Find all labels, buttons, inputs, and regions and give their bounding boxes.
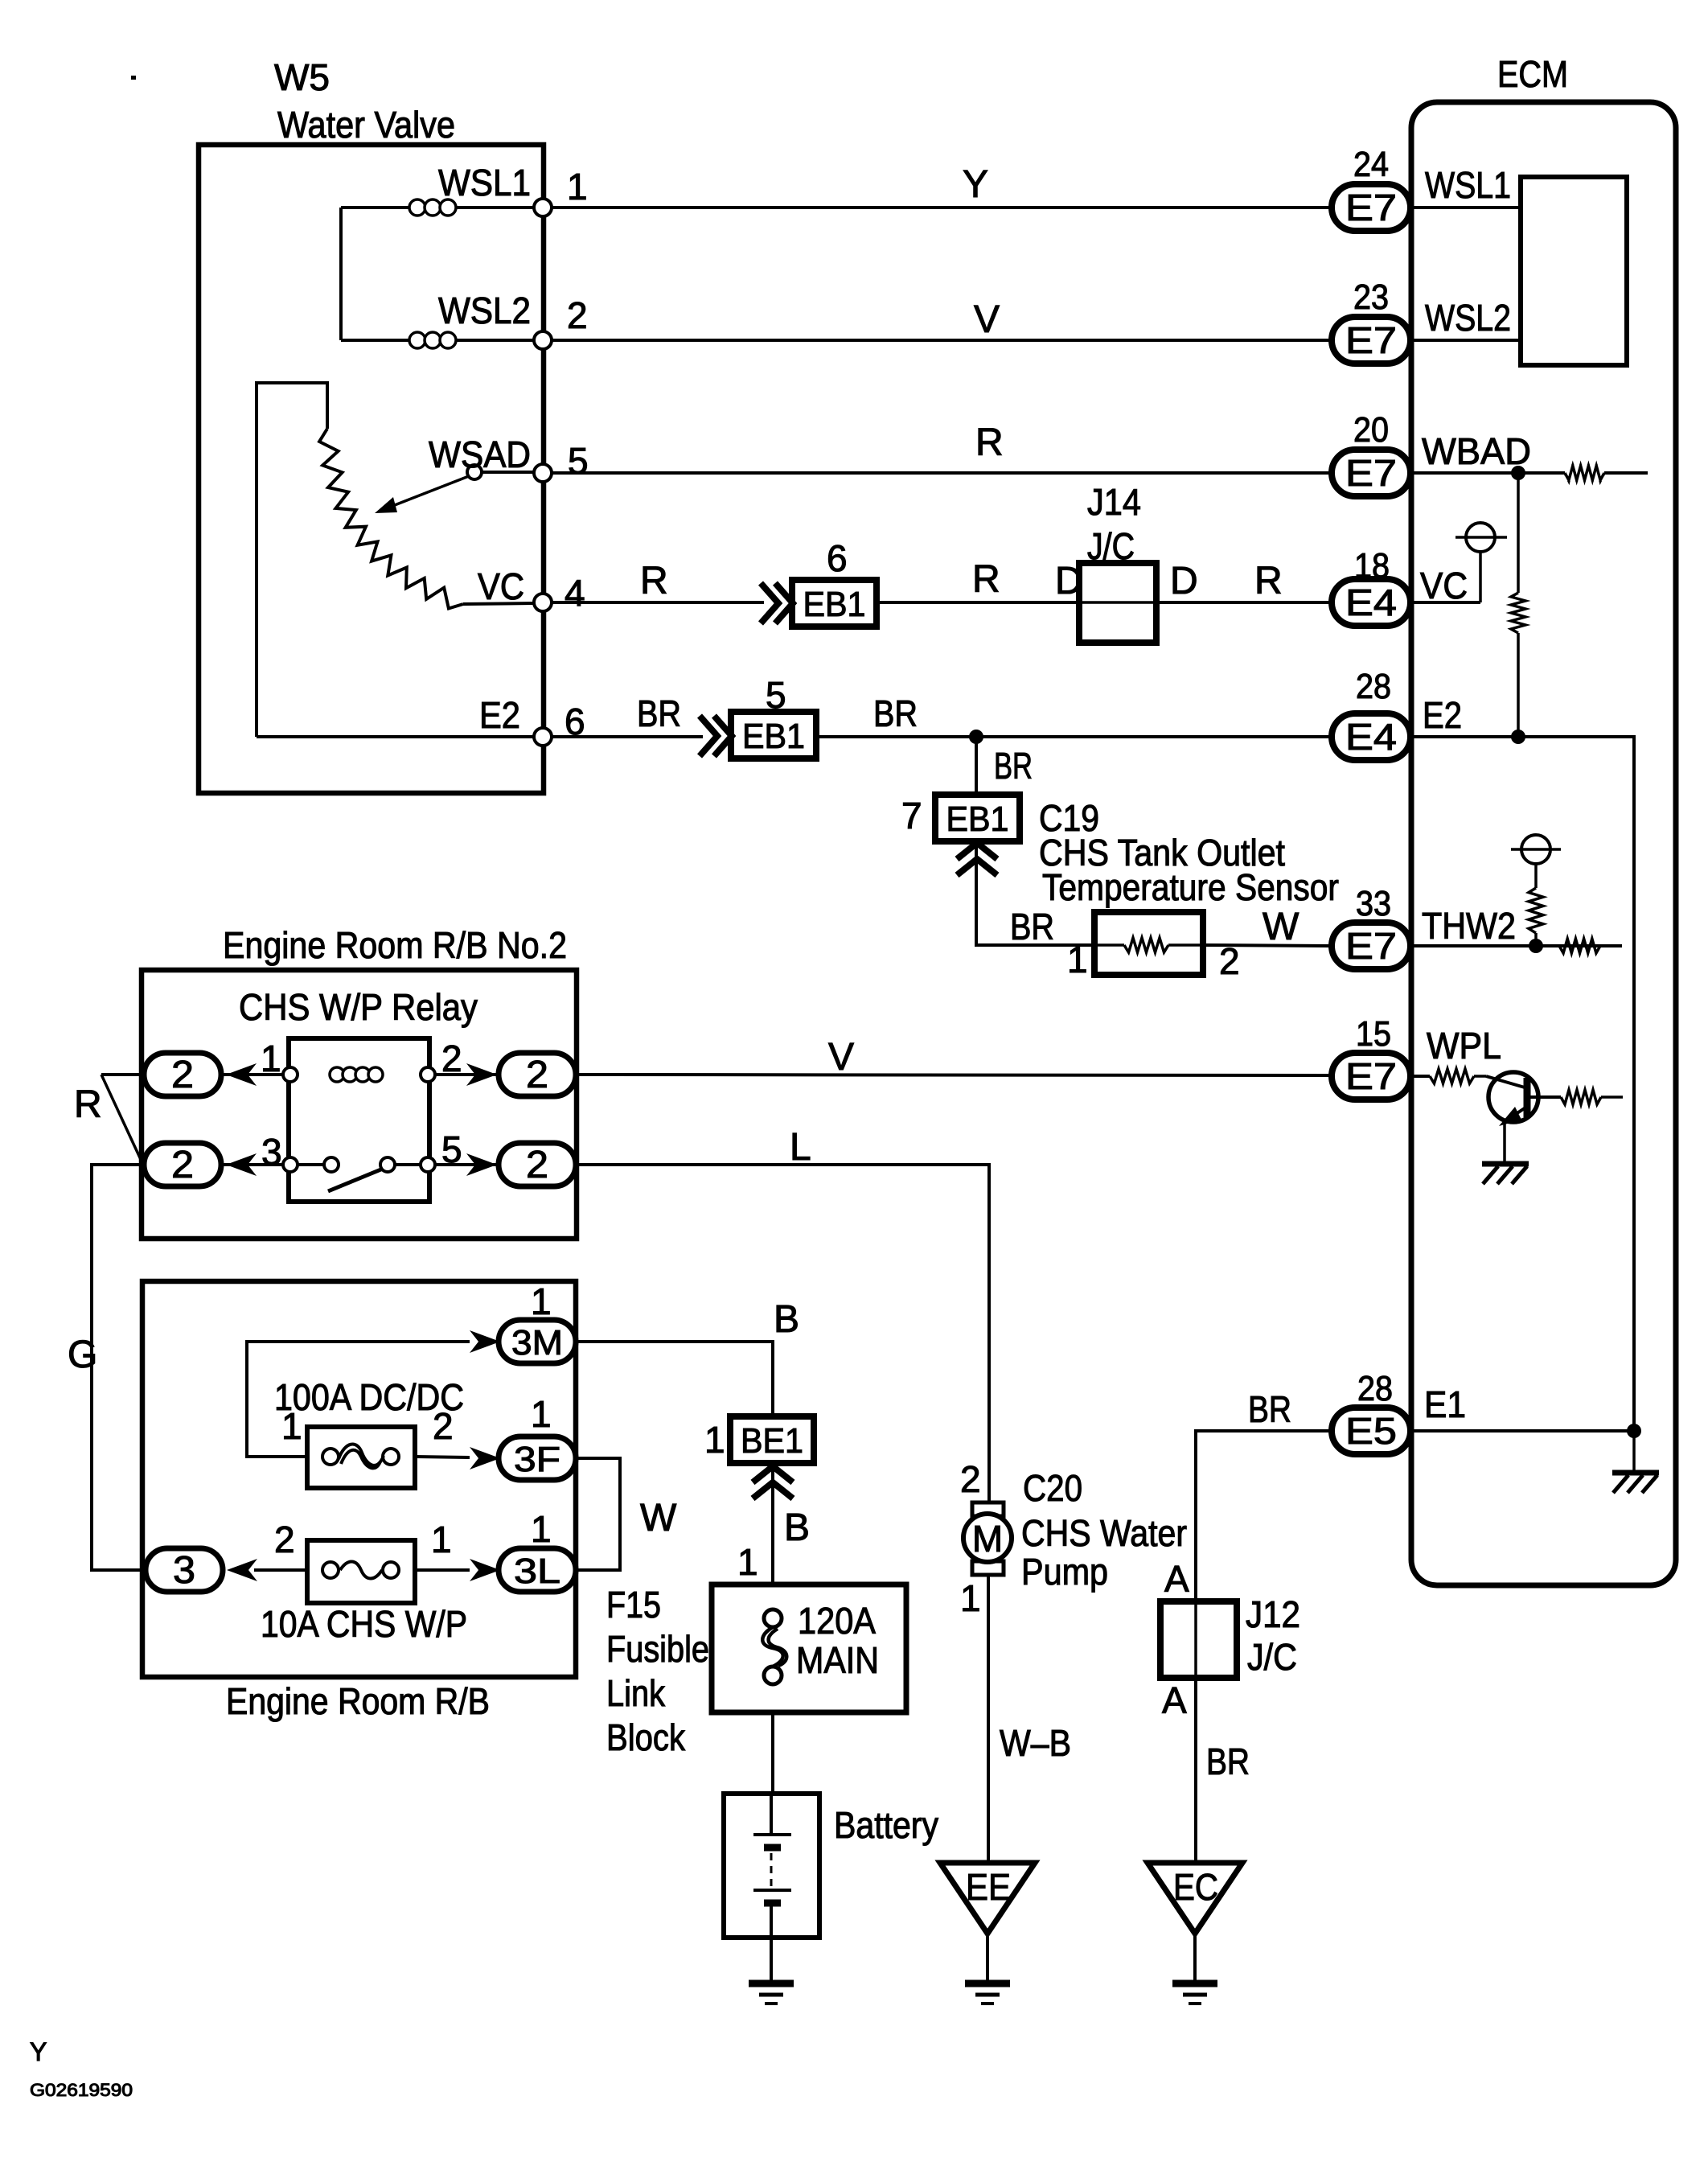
svg-text:W: W [640, 1497, 677, 1539]
svg-text:M: M [972, 1518, 1003, 1560]
svg-text:5: 5 [441, 1128, 462, 1170]
svg-text:BR: BR [1206, 1741, 1250, 1782]
svg-text:WPL: WPL [1427, 1025, 1501, 1067]
svg-text:28: 28 [1357, 1369, 1393, 1408]
svg-text:E5: E5 [1345, 1410, 1397, 1452]
svg-text:Engine Room R/B No.2: Engine Room R/B No.2 [223, 924, 567, 966]
svg-text:BR: BR [1010, 906, 1054, 947]
svg-text:R: R [74, 1083, 102, 1126]
svg-text:2: 2 [960, 1458, 981, 1500]
svg-text:ECM: ECM [1497, 53, 1568, 95]
svg-text:Y: Y [963, 163, 988, 206]
svg-text:6: 6 [827, 537, 848, 579]
svg-text:BR: BR [873, 693, 918, 734]
svg-text:CHS Water: CHS Water [1021, 1512, 1187, 1554]
svg-text:Block: Block [606, 1716, 686, 1758]
svg-text:Link: Link [606, 1672, 666, 1714]
svg-text:CHS W/P Relay: CHS W/P Relay [239, 986, 478, 1028]
svg-text:5: 5 [766, 674, 786, 716]
svg-text:E4: E4 [1345, 582, 1397, 623]
svg-text:2: 2 [567, 294, 588, 336]
svg-text:C20: C20 [1023, 1467, 1082, 1509]
svg-text:1: 1 [531, 1393, 552, 1435]
svg-text:18: 18 [1354, 546, 1390, 586]
svg-text:WSL1: WSL1 [1425, 164, 1511, 206]
svg-text:A: A [1162, 1679, 1187, 1721]
svg-text:R: R [640, 560, 668, 602]
svg-text:WBAD: WBAD [1422, 430, 1531, 472]
svg-text:E7: E7 [1345, 319, 1397, 361]
svg-text:WSL2: WSL2 [438, 290, 531, 331]
svg-text:23: 23 [1353, 277, 1389, 317]
svg-text:Engine Room R/B: Engine Room R/B [226, 1680, 490, 1722]
svg-text:D: D [1055, 560, 1083, 602]
svg-text:4: 4 [565, 572, 585, 614]
svg-text:10A CHS W/P: 10A CHS W/P [261, 1603, 467, 1645]
svg-text:F15: F15 [606, 1584, 661, 1626]
svg-text:1: 1 [737, 1541, 758, 1583]
svg-text:E2: E2 [1423, 694, 1462, 736]
svg-text:WSAD: WSAD [429, 434, 531, 475]
svg-text:24: 24 [1353, 145, 1389, 184]
svg-text:2: 2 [526, 1144, 548, 1186]
svg-text:BE1: BE1 [741, 1421, 803, 1461]
svg-text:BR: BR [1248, 1388, 1291, 1430]
svg-text:R: R [972, 558, 1000, 601]
svg-text:2: 2 [274, 1519, 295, 1560]
svg-text:EC: EC [1173, 1866, 1218, 1908]
svg-text:1: 1 [704, 1419, 725, 1461]
svg-text:VC: VC [1420, 565, 1468, 606]
svg-text:5: 5 [568, 440, 589, 482]
svg-text:2: 2 [441, 1038, 462, 1079]
svg-text:1: 1 [531, 1508, 552, 1550]
svg-text:Pump: Pump [1021, 1551, 1108, 1593]
svg-text:120A: 120A [798, 1600, 876, 1642]
svg-text:3L: 3L [514, 1552, 560, 1591]
svg-text:EE: EE [966, 1866, 1011, 1908]
svg-text:W5: W5 [274, 56, 330, 98]
svg-text:B: B [784, 1506, 810, 1549]
svg-text:WSL2: WSL2 [1425, 297, 1511, 339]
svg-text:2: 2 [171, 1054, 194, 1096]
svg-text:BR: BR [637, 693, 681, 734]
svg-text:W–B: W–B [1000, 1722, 1071, 1764]
svg-text:Fusible: Fusible [606, 1628, 709, 1670]
svg-text:1: 1 [960, 1577, 981, 1619]
svg-text:Temperature Sensor: Temperature Sensor [1042, 866, 1339, 908]
svg-text:E4: E4 [1345, 716, 1397, 758]
svg-text:Y: Y [30, 2037, 47, 2066]
svg-text:1: 1 [1067, 939, 1088, 980]
svg-text:3: 3 [173, 1549, 195, 1592]
svg-text:1: 1 [531, 1280, 552, 1322]
svg-text:R: R [1254, 560, 1283, 602]
svg-text:A: A [1164, 1558, 1189, 1600]
svg-text:E7: E7 [1345, 1055, 1397, 1097]
svg-text:J14: J14 [1087, 481, 1141, 523]
svg-text:J12: J12 [1246, 1593, 1300, 1635]
svg-text:R: R [975, 421, 1004, 464]
svg-text:33: 33 [1356, 884, 1391, 923]
svg-text:6: 6 [565, 701, 585, 742]
svg-text:G: G [68, 1334, 97, 1376]
svg-text:THW2: THW2 [1422, 905, 1516, 947]
svg-text:EB1: EB1 [946, 799, 1009, 839]
svg-text:V: V [828, 1036, 854, 1079]
svg-text:1: 1 [431, 1519, 452, 1560]
svg-text:E7: E7 [1345, 925, 1397, 967]
svg-text:E2: E2 [479, 694, 520, 736]
svg-text:L: L [790, 1126, 811, 1169]
svg-text:E7: E7 [1345, 452, 1397, 494]
svg-text:1: 1 [281, 1405, 302, 1447]
svg-text:D: D [1170, 560, 1198, 602]
svg-text:MAIN: MAIN [796, 1639, 879, 1681]
svg-text:Water Valve: Water Valve [277, 104, 455, 146]
svg-text:J/C: J/C [1247, 1636, 1297, 1678]
svg-text:Battery: Battery [834, 1804, 938, 1846]
svg-text:WSL1: WSL1 [438, 162, 531, 203]
svg-text:BR: BR [994, 745, 1033, 787]
svg-text:J/C: J/C [1087, 525, 1135, 567]
svg-text:2: 2 [526, 1054, 548, 1096]
svg-text:2: 2 [171, 1144, 194, 1186]
svg-text:1: 1 [261, 1038, 281, 1079]
svg-text:W: W [1263, 906, 1299, 948]
svg-text:28: 28 [1356, 667, 1391, 706]
svg-text:15: 15 [1356, 1014, 1391, 1054]
svg-text:EB1: EB1 [803, 585, 866, 624]
svg-text:E7: E7 [1345, 187, 1397, 228]
svg-text:3M: 3M [511, 1323, 563, 1363]
svg-text:EB1: EB1 [742, 717, 805, 756]
svg-text:V: V [974, 298, 1000, 341]
svg-text:VC: VC [478, 565, 524, 607]
svg-text:2: 2 [1219, 940, 1240, 982]
svg-text:B: B [774, 1298, 799, 1341]
svg-text:E1: E1 [1424, 1383, 1466, 1425]
svg-text:G02619590: G02619590 [30, 2080, 133, 2100]
svg-text:20: 20 [1353, 410, 1389, 450]
svg-text:2: 2 [433, 1405, 454, 1447]
svg-text:3: 3 [261, 1131, 282, 1173]
svg-text:3F: 3F [514, 1440, 560, 1479]
svg-text:7: 7 [901, 795, 922, 836]
svg-text:1: 1 [567, 166, 588, 208]
